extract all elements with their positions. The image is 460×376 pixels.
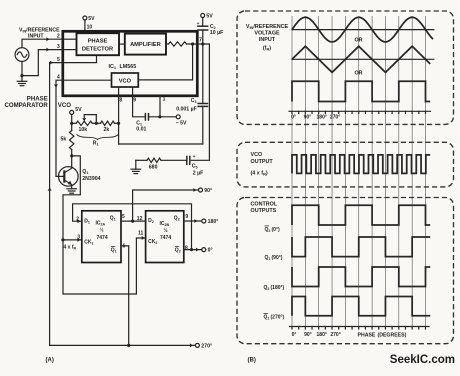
- terminal -5V: [176, 115, 180, 119]
- wire C3 to loop bottom: [202, 106, 204, 144]
- svg-text:180°: 180°: [317, 332, 327, 338]
- VCO block: [112, 73, 139, 87]
- arrowhead into CK1: [77, 238, 80, 242]
- svg-text:+: +: [193, 155, 196, 160]
- potentiometer 10k: [76, 121, 92, 125]
- svg-text:VCO: VCO: [251, 152, 263, 158]
- arrowhead into D1: [77, 219, 80, 223]
- svg-text:COMPARATOR: COMPARATOR: [4, 102, 48, 109]
- svg-text:2N3904: 2N3904: [82, 176, 100, 182]
- wire amplifier output to resistor: [166, 43, 169, 45]
- capacitor C5 2uF: [186, 156, 188, 165]
- capacitor C3 0.001uF: [197, 103, 208, 105]
- svg-text:8: 8: [185, 245, 188, 251]
- transistor Q1 circle: [59, 167, 79, 187]
- flip-flop IC2a box: [82, 211, 121, 263]
- node junction amp output: [191, 42, 194, 45]
- resistor 2k: [101, 121, 115, 125]
- svg-text:LM565: LM565: [120, 64, 137, 70]
- arrowhead 270deg: [190, 343, 193, 347]
- svg-text:(180°): (180°): [271, 285, 285, 291]
- wire pin 8 to C3 bottom: [119, 143, 203, 145]
- svg-text:10: 10: [87, 25, 93, 31]
- resistor 5k: [71, 123, 73, 130]
- svg-text:270°: 270°: [330, 115, 340, 121]
- wire C5 to 680: [161, 159, 187, 161]
- pot wiper arm: [84, 115, 96, 124]
- svg-text:Q1: Q1: [264, 315, 270, 321]
- wire VCO output to pin 4: [63, 79, 112, 81]
- arrowhead on pin5 wire: [50, 61, 53, 65]
- wire Q2 output to 180deg: [184, 220, 202, 222]
- phase detector block U-PD: [77, 33, 120, 55]
- svg-text:0°: 0°: [292, 332, 297, 338]
- svg-text:2 µF: 2 µF: [193, 170, 203, 176]
- svg-text:VIN/REFERENCE: VIN/REFERENCE: [246, 24, 289, 30]
- svg-text:IC2A: IC2A: [96, 220, 106, 226]
- svg-text:INPUT: INPUT: [28, 33, 44, 39]
- svg-text:9: 9: [185, 214, 188, 220]
- IC1 LM565 outline box: [63, 31, 198, 96]
- dashed box reference input: [237, 11, 454, 124]
- svg-text:OR: OR: [354, 71, 362, 77]
- wire pin 9 to C1: [133, 96, 145, 117]
- wire 680 to ground: [136, 159, 147, 161]
- svg-text:D2: D2: [148, 218, 154, 224]
- waveform Q2 180deg: [292, 267, 430, 287]
- svg-text:SeekIC.com: SeekIC.com: [390, 354, 455, 366]
- node junction wiper/2k: [95, 122, 98, 125]
- arrowhead into CK2: [142, 236, 145, 240]
- resistor 680: [147, 158, 161, 162]
- 5V supply terminal at R1: [70, 110, 74, 114]
- arrowhead up on feedback line: [48, 188, 52, 191]
- wire VCO pin 8 stub: [118, 87, 120, 96]
- triangle reference waveform: [292, 46, 430, 72]
- svg-text:Q1: Q1: [82, 169, 88, 175]
- svg-text:90°: 90°: [204, 188, 212, 194]
- resistor R-int (loop filter): [169, 42, 187, 46]
- svg-text:CK2: CK2: [148, 239, 157, 245]
- svg-text:CK1: CK1: [84, 239, 93, 245]
- svg-text:C3: C3: [191, 98, 197, 104]
- svg-text:INPUT: INPUT: [259, 37, 276, 43]
- wire source top to pin 2: [22, 39, 62, 48]
- node junction pin 7 / C2: [201, 42, 204, 45]
- arrowhead down on VCO wire: [54, 84, 58, 87]
- arrowhead 180deg: [194, 219, 197, 223]
- svg-text:Q2: Q2: [174, 215, 180, 221]
- wire pin 1 down: [159, 96, 161, 117]
- wire 5V to C2: [202, 18, 204, 27]
- R1 brace: [77, 134, 119, 139]
- svg-text:10k: 10k: [79, 127, 88, 133]
- wire 2k to pin8 line: [115, 122, 119, 124]
- svg-text:Q2: Q2: [265, 227, 271, 233]
- sine-wave source V_IN: [15, 48, 29, 62]
- wire resistor to pin 7 node: [187, 43, 210, 45]
- svg-text:Q1: Q1: [265, 255, 271, 261]
- wire node down to VCO feedback: [138, 44, 192, 80]
- sine reference waveform: [292, 17, 433, 42]
- svg-text:Q2: Q2: [264, 285, 270, 291]
- svg-text:3: 3: [57, 44, 60, 50]
- capacitor C2 10uF: [197, 25, 208, 27]
- svg-text:PHASE: PHASE: [358, 333, 376, 339]
- 5V supply terminal pin 10: [83, 16, 87, 20]
- svg-text:5V: 5V: [75, 107, 82, 113]
- svg-text:7474: 7474: [97, 235, 108, 241]
- svg-text:680: 680: [149, 164, 158, 170]
- svg-text:CONTROL: CONTROL: [251, 202, 278, 208]
- svg-text:180°: 180°: [317, 115, 327, 121]
- svg-text:(B): (B): [248, 358, 256, 364]
- wire C2 to pin7 node: [202, 30, 204, 44]
- svg-text:+: +: [197, 22, 200, 27]
- svg-text:C5: C5: [192, 163, 198, 169]
- wire PD bottom to pin 5: [63, 55, 97, 62]
- svg-text:5: 5: [122, 214, 125, 220]
- wire pin7 outer branch: [191, 44, 209, 160]
- svg-text:4 x fR: 4 x fR: [64, 244, 77, 250]
- arrowhead into pin 2: [46, 37, 49, 41]
- ground at source: [21, 76, 23, 82]
- waveform Q2bar 0deg: [292, 205, 430, 225]
- svg-text:IC1: IC1: [109, 64, 117, 70]
- svg-text:(DEGREES): (DEGREES): [378, 333, 407, 339]
- panel3 axis: [290, 326, 430, 328]
- node junction at source bottom: [20, 74, 23, 77]
- flip-flop IC2b box: [146, 211, 184, 263]
- wire Q2bar feedback to D1: [73, 204, 192, 250]
- svg-text:Q2: Q2: [175, 247, 181, 253]
- Q1 base bar: [63, 170, 65, 182]
- svg-text:7474: 7474: [160, 235, 171, 241]
- svg-text:11: 11: [138, 230, 144, 236]
- wire C1 to -5V: [149, 116, 177, 118]
- svg-text:OR: OR: [354, 37, 362, 43]
- wire Q1bar to 270 line: [121, 246, 129, 346]
- ground at Q1 emitter: [67, 188, 77, 190]
- wire pin 8 down: [118, 96, 120, 144]
- svg-text:OUTPUTS: OUTPUTS: [251, 208, 277, 214]
- wire 90deg output: [133, 190, 199, 221]
- wire clock node to CK2: [63, 238, 146, 294]
- svg-text:0.01: 0.01: [136, 126, 146, 132]
- svg-text:(90°): (90°): [272, 255, 283, 261]
- terminal 180deg: [202, 219, 206, 223]
- node junction Q1/90deg: [131, 220, 134, 223]
- wire pin7 node down to C3: [202, 44, 204, 104]
- svg-text:(270°): (270°): [271, 315, 285, 321]
- svg-text:(fR): (fR): [263, 45, 271, 51]
- wire collector loop to clock node: [63, 156, 80, 240]
- wire source bottom to junction: [21, 62, 23, 76]
- wire to 10k: [72, 122, 77, 124]
- wire pin 3 to phase detector: [63, 49, 77, 51]
- wire junction to pin 3: [22, 50, 62, 76]
- Q1 emitter arrowhead: [68, 181, 72, 185]
- svg-text:VCO: VCO: [119, 78, 132, 84]
- 5V supply terminal top right: [201, 14, 205, 18]
- node junction 5V/10k/5k: [70, 122, 73, 125]
- svg-text:0°: 0°: [291, 115, 296, 121]
- svg-text:2k: 2k: [104, 127, 110, 133]
- node junction 2k/pin8: [117, 122, 120, 125]
- triangle midline: [292, 58, 434, 60]
- square reference waveform: [292, 81, 430, 101]
- wire wiper node to 2k: [96, 122, 100, 124]
- svg-text:VOLTAGE: VOLTAGE: [254, 31, 280, 37]
- svg-text:AMPLIFIER: AMPLIFIER: [130, 42, 161, 48]
- svg-text:270°: 270°: [330, 332, 340, 338]
- wire Q2bar output to 0deg: [184, 249, 202, 251]
- node junction 270 line: [127, 344, 130, 347]
- svg-text:Q1: Q1: [111, 247, 117, 253]
- amplifier block U-AMP: [125, 34, 166, 55]
- arrowhead into pin 3: [46, 48, 49, 52]
- wire pin 4 VCO output down to Q1 base: [56, 80, 63, 176]
- arrowhead 90deg: [193, 188, 196, 192]
- svg-text:− 5V: − 5V: [176, 120, 187, 126]
- panel3 axis ticks: [291, 327, 293, 330]
- svg-text:2: 2: [57, 34, 60, 40]
- svg-text:5V: 5V: [88, 16, 95, 22]
- sine midline: [292, 29, 434, 31]
- svg-text:OUTPUT: OUTPUT: [251, 159, 274, 165]
- svg-text:270°: 270°: [201, 343, 212, 349]
- svg-text:5k: 5k: [61, 136, 67, 142]
- grid lines 90deg intervals: [291, 16, 293, 327]
- svg-text:(0°): (0°): [272, 227, 280, 233]
- wire clock node to CK1: [63, 239, 82, 241]
- ground at 680: [131, 168, 141, 170]
- svg-text:4: 4: [57, 74, 60, 80]
- svg-text:DETECTOR: DETECTOR: [82, 46, 113, 52]
- svg-text:0°: 0°: [208, 248, 213, 254]
- node junction collector: [70, 154, 73, 157]
- svg-text:90°: 90°: [304, 115, 312, 121]
- arrowhead 0deg: [196, 248, 199, 252]
- VCO output waveform: [292, 155, 430, 174]
- node junction 4xfR: [61, 238, 64, 241]
- panel1 axis ticks: [291, 111, 293, 113]
- svg-text:180°: 180°: [208, 219, 219, 225]
- node junction Q2bar: [190, 248, 193, 251]
- pot wiper arrowhead: [82, 118, 86, 121]
- wire 10k to wiper node: [92, 122, 96, 124]
- svg-text:1: 1: [163, 97, 166, 103]
- dashed box VCO output: [237, 142, 454, 187]
- svg-text:(4 x fR): (4 x fR): [251, 170, 268, 176]
- svg-text:(A): (A): [46, 358, 54, 364]
- terminal 270deg: [195, 343, 199, 347]
- svg-text:IC2B: IC2B: [160, 221, 170, 227]
- svg-text:8: 8: [119, 97, 122, 103]
- svg-text:Q1: Q1: [110, 215, 116, 221]
- svg-text:5V: 5V: [206, 14, 213, 20]
- svg-text:R1: R1: [93, 141, 99, 147]
- Q1 collector: [64, 156, 71, 173]
- wire pin 5 feedback vertical: [50, 63, 63, 346]
- svg-text:½: ½: [164, 227, 168, 234]
- waveform Q1 90deg: [292, 237, 430, 257]
- dashed box control outputs: [237, 198, 454, 344]
- svg-text:D1: D1: [84, 218, 90, 224]
- svg-text:90°: 90°: [304, 332, 312, 338]
- Q1 emitter: [64, 180, 71, 189]
- wire pin 2 to phase detector: [63, 38, 77, 40]
- svg-text:½: ½: [100, 227, 104, 234]
- terminal 90deg: [199, 188, 203, 192]
- svg-text:9: 9: [133, 97, 136, 103]
- waveform Q1bar 270deg: [292, 297, 430, 316]
- node junction C1/pin1: [158, 115, 161, 118]
- wire Q1 output to D2: [121, 220, 146, 222]
- svg-text:10 µF: 10 µF: [210, 30, 223, 36]
- capacitor C1: [144, 113, 146, 121]
- svg-text:VCO: VCO: [58, 102, 71, 109]
- wire PD to amplifier: [119, 43, 125, 45]
- svg-text:7: 7: [199, 38, 202, 44]
- wire VCO pin 9 stub: [132, 87, 134, 96]
- svg-text:3: 3: [77, 235, 80, 241]
- wire bottom 270deg: [50, 344, 196, 346]
- svg-text:0.001 µF: 0.001 µF: [176, 106, 197, 112]
- panel1 axis: [289, 110, 431, 112]
- svg-text:PHASE: PHASE: [88, 38, 108, 44]
- terminal 0deg: [202, 248, 206, 252]
